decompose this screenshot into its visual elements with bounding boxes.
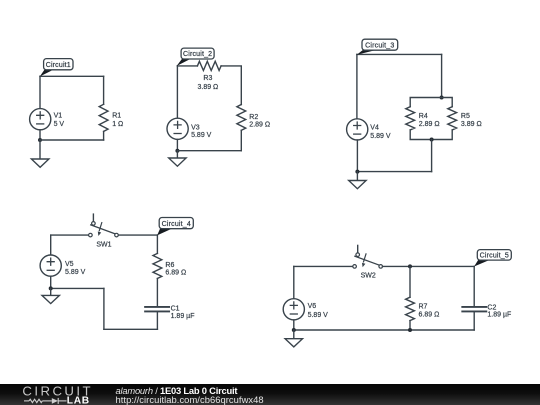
CircuitLab logo <box>0 384 100 405</box>
wire C2 bottom to bus <box>473 312 475 330</box>
junction node circuit2 bottom <box>175 149 179 153</box>
wire right vertical to parallel pair <box>441 54 443 97</box>
ground circuit3 <box>349 172 366 189</box>
R6 value label <box>165 262 186 276</box>
svg-text:LAB: LAB <box>67 396 90 405</box>
switch SW1 <box>89 214 119 237</box>
resistor R5 <box>448 107 457 130</box>
svg-text:6.89 Ω: 6.89 Ω <box>165 269 186 276</box>
wire V3 bottom to node <box>176 139 178 150</box>
resistor R4 <box>406 107 415 130</box>
wire V5 top to corner <box>50 235 52 255</box>
svg-text:C2: C2 <box>487 305 496 312</box>
svg-text:1.89 µF: 1.89 µF <box>171 313 195 320</box>
flag label Circuit_2 <box>177 48 215 66</box>
svg-text:3.89 Ω: 3.89 Ω <box>461 121 482 128</box>
logo diode symbol <box>52 398 58 404</box>
svg-text:Circuit_2: Circuit_2 <box>183 51 212 58</box>
voltage source V6 <box>283 299 304 320</box>
svg-text:Circuit_4: Circuit_4 <box>162 221 191 228</box>
svg-text:1.89 µF: 1.89 µF <box>487 312 511 319</box>
svg-text:R4: R4 <box>419 113 428 120</box>
svg-text:SW1: SW1 <box>96 242 111 249</box>
V3 value label <box>191 125 212 140</box>
svg-text:5.89 V: 5.89 V <box>191 132 212 139</box>
flag label Circuit_4 <box>157 218 193 236</box>
wire mid horizontal circuit4 <box>51 287 104 289</box>
wire riser circuit4 <box>103 288 105 329</box>
ground circuit4 <box>42 288 59 303</box>
wire R6 to C1 <box>156 279 158 306</box>
resistor R3 <box>197 61 221 70</box>
junction node parallel top <box>440 96 444 100</box>
wire switch right to C2 corner <box>383 265 475 267</box>
flag label Circuit1 <box>40 59 73 77</box>
svg-text:V4: V4 <box>370 125 379 132</box>
junction node R7 top <box>408 264 412 268</box>
svg-text:6.89 Ω: 6.89 Ω <box>419 312 440 319</box>
wire top bus circuit1 <box>40 75 104 77</box>
V6 value label <box>308 303 329 319</box>
wire bottom bus circuit5 <box>294 329 474 331</box>
svg-text:V1: V1 <box>54 112 63 119</box>
wire node down to R6 <box>156 235 158 253</box>
footer title text <box>116 386 264 405</box>
svg-text:5 V: 5 V <box>54 121 65 128</box>
wire R1 top lead <box>103 76 105 104</box>
wire down from parallel bottom <box>431 140 433 172</box>
voltage source V5 <box>40 255 61 276</box>
wire C1 bottom to bus <box>156 312 158 329</box>
wire R3 right lead and corner down <box>221 66 241 105</box>
flag label Circuit_5 <box>474 250 511 267</box>
junction node circuit4 <box>49 286 53 290</box>
svg-text:Circuit1: Circuit1 <box>46 62 71 69</box>
wire left vertical circuit3 <box>356 54 358 118</box>
svg-text:V6: V6 <box>308 303 317 310</box>
svg-text:5.89 V: 5.89 V <box>65 269 86 276</box>
wire R7 bottom lead <box>409 321 411 330</box>
wire R3 left lead <box>177 65 197 67</box>
resistor R2 <box>237 105 246 131</box>
voltage source V3 <box>167 118 188 139</box>
wire corner to switch left <box>294 265 353 267</box>
R4 value label <box>419 113 440 128</box>
resistor R6 <box>153 253 162 278</box>
wire top bus circuit3 <box>357 53 442 55</box>
wire corner to switch left <box>51 234 89 236</box>
R3 value label <box>197 75 218 91</box>
wire V6 top to corner <box>293 266 295 298</box>
svg-text:R7: R7 <box>419 303 428 310</box>
C2 value label <box>487 305 511 319</box>
wire left from node to V1 top <box>39 76 41 108</box>
flag label Circuit_3 <box>357 39 398 55</box>
junction node circuit3 bottom <box>355 170 359 174</box>
wire R7 top lead <box>409 266 411 297</box>
wire V6 bottom to node <box>293 320 295 330</box>
ground circuit1 <box>31 140 49 167</box>
switch SW2 <box>353 245 383 268</box>
wire bottom horizontal circuit3 <box>357 171 431 173</box>
wire left vertical circuit2 <box>176 66 178 118</box>
logo schematic squiggle <box>24 398 67 404</box>
wire switch right to node <box>118 234 157 236</box>
ground circuit2 <box>169 151 186 167</box>
junction node circuit1 bottom <box>38 138 42 142</box>
resistor R1 <box>99 104 108 131</box>
voltage source V4 <box>347 119 368 140</box>
junction node circuit5 bottom <box>292 328 296 332</box>
svg-text:3.89 Ω: 3.89 Ω <box>197 84 218 91</box>
wire V5 bottom to node <box>50 276 52 288</box>
svg-text:2.89 Ω: 2.89 Ω <box>419 121 440 128</box>
svg-text:R3: R3 <box>203 75 212 82</box>
capacitor C1 <box>145 307 169 312</box>
svg-text:5.89 V: 5.89 V <box>370 133 391 140</box>
svg-text:Circuit_5: Circuit_5 <box>480 253 509 260</box>
V4 value label <box>370 125 391 140</box>
svg-text:R2: R2 <box>249 114 258 121</box>
svg-text:C1: C1 <box>171 305 180 312</box>
wire R2 bottom lead <box>240 130 242 150</box>
wire C2 top lead <box>473 266 475 306</box>
wire parallel top rail <box>410 98 452 107</box>
svg-text:R5: R5 <box>461 113 470 120</box>
svg-text:R6: R6 <box>165 262 174 269</box>
junction node parallel bottom <box>430 138 434 142</box>
R5 value label <box>461 113 482 128</box>
resistor R7 <box>406 297 415 320</box>
wire bottom bus circuit1 <box>40 139 104 141</box>
svg-text:V3: V3 <box>191 125 200 132</box>
svg-text:SW2: SW2 <box>361 273 376 280</box>
footer bar <box>0 384 540 405</box>
wire R1 bottom lead <box>103 131 105 140</box>
svg-text:5.89 V: 5.89 V <box>308 312 329 319</box>
R2 value label <box>249 114 270 129</box>
svg-text:V5: V5 <box>65 261 74 268</box>
wire bottom bus circuit2 <box>177 150 241 152</box>
voltage source V1 <box>30 109 51 130</box>
junction node R7 bottom <box>408 328 412 332</box>
svg-text:1 Ω: 1 Ω <box>112 121 123 128</box>
capacitor C2 <box>462 307 486 312</box>
ground circuit5 <box>285 330 302 347</box>
R1 value label <box>112 112 123 128</box>
svg-text:2.89 Ω: 2.89 Ω <box>249 122 270 129</box>
wire parallel bottom rail <box>410 130 452 140</box>
C1 value label <box>171 305 195 320</box>
svg-text:Circuit_3: Circuit_3 <box>365 42 394 49</box>
wire V4 bottom to node <box>356 140 358 172</box>
svg-text:R1: R1 <box>112 112 121 119</box>
V5 value label <box>65 261 86 276</box>
wire bottom bus circuit4 <box>104 328 157 330</box>
wire V1 bottom to node <box>39 130 41 140</box>
V1 value label <box>54 112 65 128</box>
R7 value label <box>419 303 440 318</box>
